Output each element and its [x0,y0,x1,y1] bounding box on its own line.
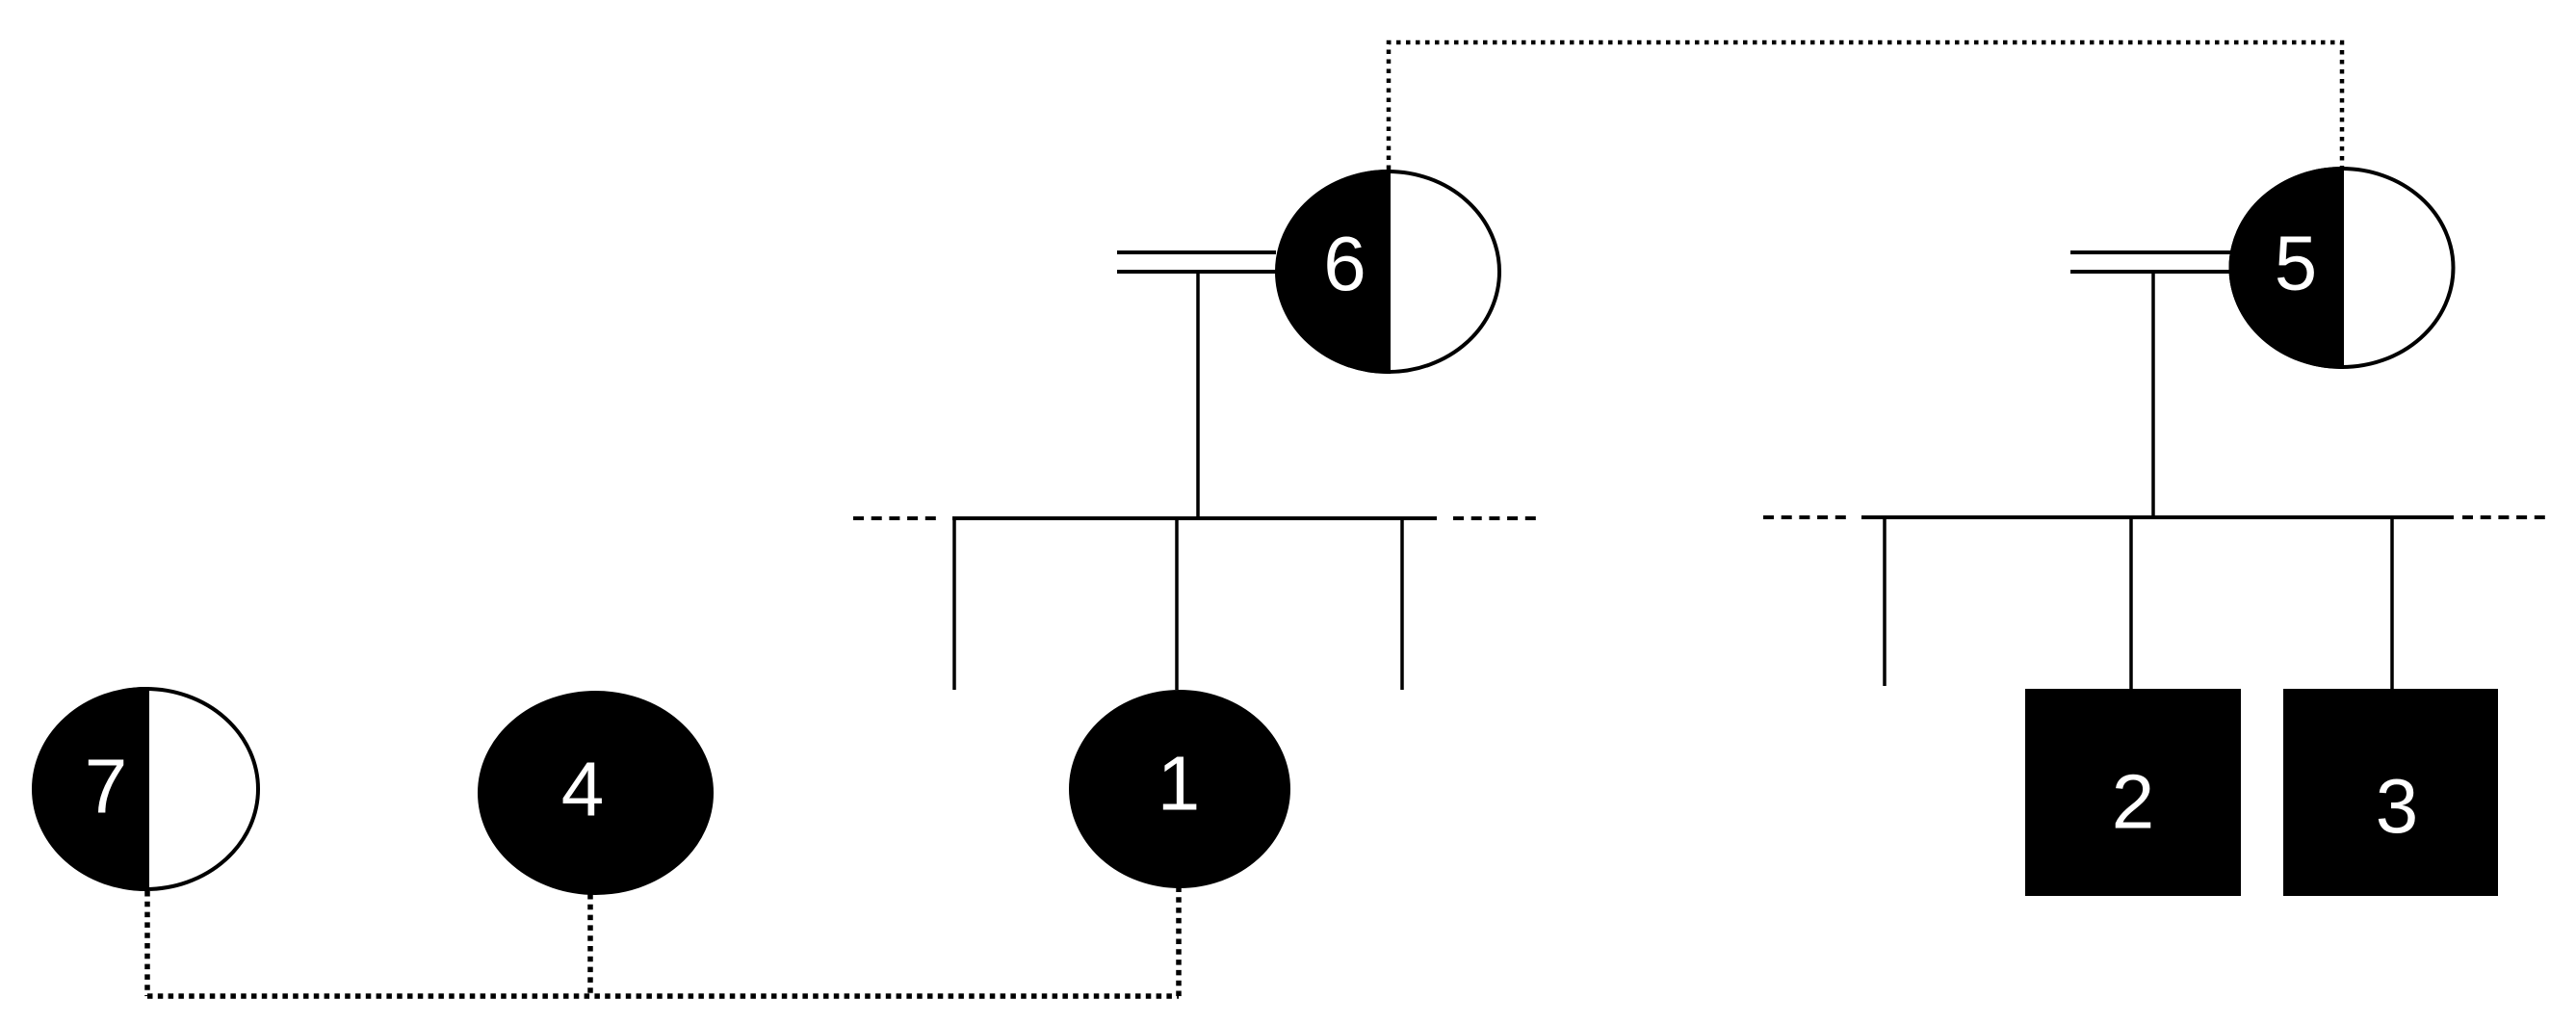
wire: right sibling drop 3 (to square 3) [2390,517,2394,690]
wire: left sibling drop 3 [1400,518,1404,690]
wire: right sibling line solid [1861,515,2454,519]
svg-text:7: 7 [85,744,128,829]
svg-text:5: 5 [2275,221,2318,306]
wire: left sibling drop 2 (to circle 1) [1175,518,1179,690]
wire: right sibling line dashed right extension [2462,515,2552,519]
individual 4: filled circle [480,693,712,893]
individual 6: half-filled circle [1277,171,1499,372]
wire: right sibling drop 1 [1883,517,1886,686]
wire: bottom dotted line from circle 7 down [144,891,150,996]
svg-text:1: 1 [1158,741,1201,827]
wire: left sibling line dashed left extension [853,516,942,520]
svg-text:6: 6 [1323,221,1366,306]
wire: left sibling drop 1 [952,516,956,690]
wire: bottom dotted line up to circle 1 [1176,884,1182,996]
wire: right sibling drop 2 (to square 2) [2129,517,2133,690]
wire: marriage double line left of circle 5 [2070,250,2231,254]
wire: top dotted consanguinity line between 6 and 5 [1389,42,2342,170]
wire: right sibling line dashed left extension [1763,515,1849,519]
individual 3: filled square [2283,689,2498,896]
wire: left sibling line dashed right extension [1453,516,1539,520]
svg-text:2: 2 [2112,759,2155,845]
individual 2: filled square [2025,689,2241,896]
individual 5: half-filled circle [2231,169,2454,367]
wire: left sibling line solid [952,516,1437,520]
wire: bottom dotted horizontal line [147,993,1179,999]
wire: descent line from marriage 6 to sibling line [1196,272,1200,518]
individual 1: filled circle [1071,692,1288,886]
wire: bottom dotted line from circle 4 down [587,894,593,996]
svg-text:4: 4 [561,747,605,832]
wire: descent line from marriage 5 to sibling line [2151,272,2155,517]
individual 7: half-filled circle [34,689,258,889]
svg-text:3: 3 [2376,763,2419,849]
wire: marriage double line left of circle 6 [1117,250,1276,254]
